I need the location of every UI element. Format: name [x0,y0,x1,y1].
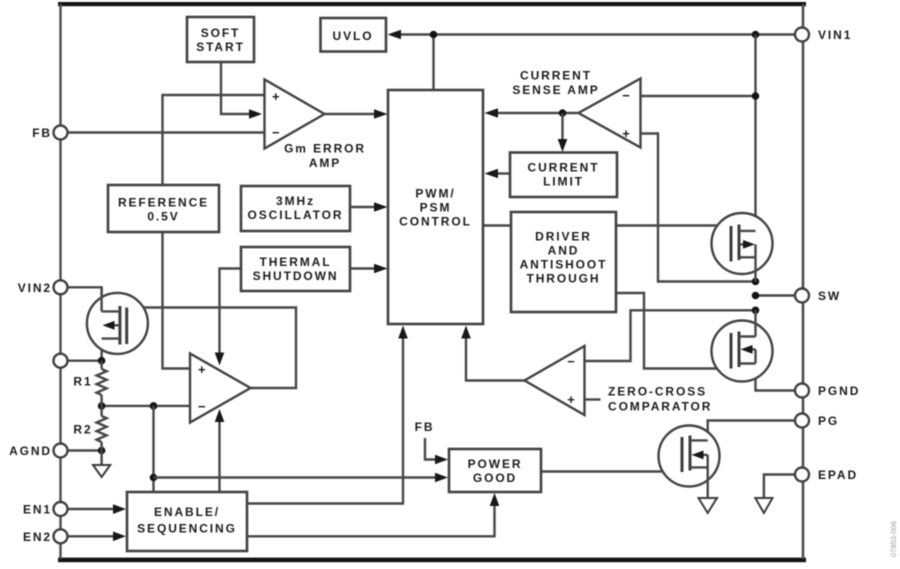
junction current sense output [559,109,567,117]
wire DRIVER to M2 gate [616,293,731,369]
label CURRENT SENSE AMP [512,69,599,98]
pin PG [795,414,839,429]
block POWER GOOD [449,449,541,492]
wire VIN2 pin to M4 drain [68,287,102,311]
svg-text:AMP: AMP [309,156,341,170]
junction R2 bottom [98,447,106,455]
arrowhead into PWM right edge (current sense) [485,108,499,118]
transistor M2 low-side NMOS [712,310,773,381]
svg-text:POWER: POWER [468,457,523,471]
svg-text:SW: SW [818,289,841,303]
wire current sense amp plus input to SW node [641,134,756,282]
block THERMAL SHUTDOWN [241,247,350,291]
arrowhead into PWM left (oscillator) [374,202,388,212]
wire zero-cross plus stub [585,398,601,400]
svg-text:REFERENCE: REFERENCE [118,196,209,210]
svg-text:R2: R2 [73,422,92,436]
svg-text:SEQUENCING: SEQUENCING [137,522,237,536]
wire enable/sequencing to PWM bottom [247,337,403,504]
wire UVLO-node down to PWM box [432,35,434,91]
wire reference to error amp plus [163,95,265,185]
svg-text:PGND: PGND [818,384,860,398]
svg-text:SHUTDOWN: SHUTDOWN [253,269,339,283]
arrowhead up into comparator bottom [215,409,225,422]
svg-text:3MHz: 3MHz [276,194,315,208]
svg-text:PG: PG [818,414,839,428]
block SOFT START [187,17,254,62]
transistor M1 high-side PMOS [712,213,773,282]
svg-text:R1: R1 [73,374,92,388]
svg-text:FB: FB [415,420,435,434]
arrowhead into UVLO [388,30,402,40]
wire FB pin to error amp minus [68,131,265,133]
block UVLO [321,18,387,52]
wire FB stub into POWER GOOD [425,438,436,460]
svg-text:−: − [272,125,280,140]
svg-text:Gm ERROR: Gm ERROR [284,142,366,156]
svg-text:SOFT: SOFT [201,26,241,40]
svg-text:EN2: EN2 [23,530,52,544]
wire VIN1 rail (UVLO to VIN1 pin) [399,33,796,35]
wire enable/sequencing to POWER GOOD bottom [247,505,495,536]
svg-text:UVLO: UVLO [333,29,374,43]
junction VIN1 rail / M1 drain [752,31,760,39]
label ZERO-CROSS COMPARATOR [608,385,712,414]
wire M2 source to PGND pin [756,364,796,391]
comparator (enable threshold) [190,354,251,423]
pin PGND [795,384,860,399]
svg-text:−: − [567,354,575,369]
svg-text:THROUGH: THROUGH [527,272,601,286]
label R2 [73,422,92,436]
svg-text:CURRENT: CURRENT [528,161,600,175]
junction UVLO node [430,31,438,39]
svg-text:AND: AND [548,244,580,258]
arrowhead into POWER GOOD left (FB) [435,455,448,465]
svg-text:+: + [198,362,206,377]
arrowhead into POWER GOOD bottom [490,493,500,506]
arrowhead into POWER GOOD left (tap) [435,473,448,483]
arrowhead into PWM left (error amp) [374,109,388,119]
label R1 [73,374,92,388]
label Gm ERROR AMP [284,142,366,171]
svg-text:−: − [198,399,206,414]
wire 3MHz oscillator to PWM [350,206,375,208]
arrowhead EN2 [113,532,126,542]
pin EN1 [23,502,68,517]
pin AGND [9,444,67,459]
pin unlabeled (VOUT sense) [54,354,68,368]
junction M4 source / R1 top [98,357,106,365]
wire POWER GOOD to M3 gate [541,470,682,472]
svg-text:FB: FB [32,126,52,140]
junction tap branch [150,402,158,410]
svg-text:VIN2: VIN2 [18,281,52,295]
wire down into CURRENT LIMIT [561,113,563,140]
ground at EPAD [755,498,772,513]
junction SW pin tee [752,292,760,300]
transistor M4 VIN2 PMOS [87,287,148,354]
wire M4 source to divider node [100,325,102,360]
junction power good branch [150,474,158,482]
wire DRIVER to M1 gate [616,224,731,226]
wire M1 drain from VIN1 rail [754,35,756,232]
wire comparator output to M4 gate [127,308,296,389]
pin EN2 [23,529,68,544]
wire SW node to SW pin [756,294,796,296]
svg-text:GOOD: GOOD [473,471,517,485]
wire R2 bottom to ground [100,451,102,466]
ground below R2 [93,465,110,477]
arrowhead soft start into error amp [249,109,262,119]
junction M2 drain node [752,307,760,315]
wire current sense amp output to PWM [497,112,579,114]
figure number [889,521,898,557]
block 3MHz OSCILLATOR [241,186,350,231]
pin EPAD [795,468,858,483]
svg-text:VIN1: VIN1 [818,28,852,42]
arrowhead down into comparator top [215,353,225,366]
svg-text:AGND: AGND [9,444,52,458]
wire EN1 pin to enable box [68,508,115,510]
svg-text:PWM/: PWM/ [415,187,455,201]
svg-text:START: START [196,40,245,54]
svg-text:−: − [622,88,630,103]
wire AGND pin to R2 bottom [68,449,102,451]
transistor M3 power-good NMOS [659,426,720,498]
svg-text:ZERO-CROSS: ZERO-CROSS [608,385,707,399]
wire divider tap to comparator minus [102,405,190,407]
op-amp current sense amp [579,79,641,148]
pin FB [32,126,67,141]
junction on M1 drain line [752,92,760,100]
block PWM/PSM CONTROL [388,90,483,324]
wire PWM to DRIVER [483,224,511,226]
pin VIN1 [795,28,852,43]
wire reference down to comparator plus [163,232,191,369]
block CURRENT LIMIT [510,153,617,198]
op-amp Gm error amp [265,80,325,149]
wire error amp output to PWM [325,113,376,115]
svg-text:ENABLE/: ENABLE/ [154,505,220,519]
svg-text:DRIVER: DRIVER [535,230,592,244]
arrowhead EN1 [113,504,126,514]
resistor R1 [97,361,107,406]
wire EN2 pin to enable box [68,535,115,537]
wire zero-cross minus input to SW node [585,310,756,361]
junction SW node top [752,278,760,286]
wire SOFT START to error amp [221,62,249,114]
wire unlabeled pin to divider node [68,360,102,362]
svg-text:+: + [622,126,630,141]
block DRIVER AND ANTISHOOT THROUGH [511,212,616,312]
arrowhead into PWM bottom (zero-cross) [461,326,471,339]
svg-text:LIMIT: LIMIT [543,175,584,189]
arrowhead into CURRENT LIMIT top [558,139,568,152]
svg-text:EPAD: EPAD [818,468,858,482]
block REFERENCE 0.5V [108,185,219,232]
svg-text:+: + [272,89,280,104]
wire enable up into comparator bottom [218,421,220,492]
pin VIN2 [18,280,68,295]
wire thermal shutdown to PWM [350,267,375,269]
svg-text:ANTISHOOT: ANTISHOOT [520,258,608,272]
pin SW [795,289,841,304]
svg-text:PSM: PSM [420,201,452,215]
wire zero-cross output to PWM [466,337,525,381]
svg-text:THERMAL: THERMAL [260,255,332,269]
resistor R2 [97,406,107,451]
wire thermal shutdown down to comparator [220,269,242,354]
wire tap branch down to enable box [152,406,154,492]
svg-text:CONTROL: CONTROL [399,215,472,229]
arrowhead into PWM right edge (current limit) [485,169,499,179]
svg-text:+: + [567,392,575,407]
svg-text:COMPARATOR: COMPARATOR [608,400,712,414]
svg-text:CURRENT: CURRENT [520,69,592,83]
junction divider tap [98,402,106,410]
comparator zero-cross [525,346,585,415]
svg-text:EN1: EN1 [23,503,52,517]
wire EPAD to ground [764,475,796,499]
wire current sense amp minus input [641,95,756,97]
block ENABLE/SEQUENCING [127,492,247,551]
node FB label [415,420,435,434]
wire M3 drain to PG pin [708,421,796,442]
ground below M3 [699,498,718,513]
svg-text:SENSE AMP: SENSE AMP [512,83,599,97]
svg-text:07853-006: 07853-006 [889,521,898,557]
wire tap to POWER GOOD [154,476,437,478]
arrowhead into PWM bottom (enable) [398,326,408,339]
svg-text:0.5V: 0.5V [147,210,179,224]
wire CURRENT LIMIT to PWM [497,172,510,174]
svg-text:OSCILLATOR: OSCILLATOR [248,208,344,222]
arrowhead into PWM left (thermal) [374,264,388,274]
